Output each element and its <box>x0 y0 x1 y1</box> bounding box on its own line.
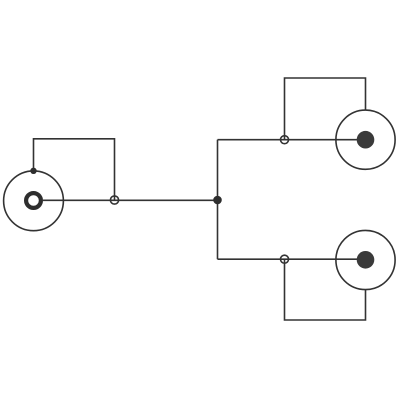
wire: bottom shield loop (node C to P2 shell) <box>285 259 366 320</box>
connector J1 outer shell (RCA jack, left) <box>4 171 64 231</box>
connector P1 center pin (male) <box>357 131 375 149</box>
connector P1 outer shell (RCA plug, top right) <box>336 110 395 169</box>
connector P2 center pin (male) <box>357 251 375 269</box>
connector P2 outer shell (RCA plug, bottom right) <box>336 230 395 289</box>
node C (open node, bottom branch) <box>281 255 289 263</box>
wire: top branch to plug P1 <box>218 139 366 141</box>
ground: shield tap dot on J1 <box>30 168 36 174</box>
wire: left shield loop (jack J1 shield to node A) <box>34 139 115 200</box>
node B (open node, top branch) <box>281 136 289 144</box>
wire: top shield loop (node B to P1 shell) <box>285 78 366 140</box>
connector J1 center contact (female ring) <box>26 193 41 208</box>
wire: main signal line J1 center to junction <box>43 199 218 201</box>
wire: center trunk vertical <box>217 140 219 260</box>
node A (open node on main line) <box>110 196 118 204</box>
junction (solder dot, signal split) <box>213 196 222 205</box>
wire: bottom branch to plug P2 <box>218 258 366 260</box>
